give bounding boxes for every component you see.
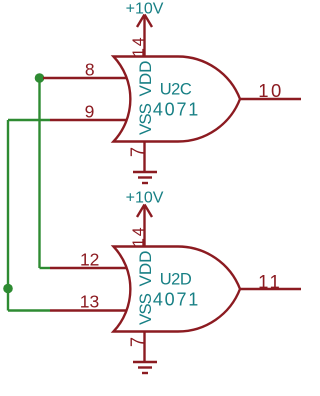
svg-text:U2C: U2C: [160, 81, 192, 99]
svg-text:VDD: VDD: [136, 251, 155, 287]
svg-text:+10V: +10V: [126, 1, 164, 18]
svg-text:+10V: +10V: [126, 190, 164, 207]
svg-text:10: 10: [258, 80, 284, 101]
svg-text:8: 8: [85, 60, 95, 80]
svg-text:13: 13: [80, 292, 99, 312]
svg-text:4071: 4071: [153, 100, 200, 120]
svg-text:7: 7: [128, 337, 148, 347]
svg-text:9: 9: [85, 102, 95, 122]
svg-text:7: 7: [128, 147, 148, 157]
svg-text:U2D: U2D: [160, 271, 192, 289]
svg-text:14: 14: [130, 226, 147, 247]
svg-text:12: 12: [80, 250, 99, 270]
svg-text:11: 11: [258, 271, 282, 292]
svg-text:VDD: VDD: [136, 61, 155, 97]
svg-text:4071: 4071: [153, 290, 200, 310]
svg-text:14: 14: [130, 36, 147, 57]
